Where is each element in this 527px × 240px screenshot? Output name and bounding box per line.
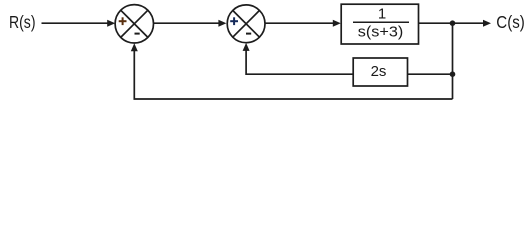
summing junction S1 X cross	[121, 10, 148, 37]
wire G1 output to C(s) with arrowhead	[419, 20, 492, 27]
svg-text:R(s): R(s)	[9, 12, 36, 32]
node junction dot at inner feedback tap	[450, 71, 456, 77]
wire outer feedback bottom line then up into S1 with arrowhead	[131, 43, 453, 99]
svg-text:2s: 2s	[371, 63, 387, 80]
summing junction S2 X cross	[233, 10, 260, 37]
G1 numerator 1	[378, 6, 386, 23]
node R(s) input label	[9, 12, 36, 32]
svg-text:s(s+3): s(s+3)	[358, 24, 404, 41]
svg-text:C(s): C(s)	[496, 12, 525, 32]
wire H1 output left then up into S2 with arrowhead	[243, 43, 354, 74]
G1 denominator s(s+3)	[358, 24, 404, 41]
G1 fraction bar	[353, 21, 409, 23]
summing junction S2 circle	[227, 5, 265, 43]
wire vertical takeoff line down to outer feedback	[452, 23, 454, 99]
wire tap to block H1 input	[408, 73, 453, 75]
wire R(s) to summing junction S1 with arrowhead	[42, 20, 116, 27]
S1 plus sign	[119, 17, 127, 25]
block G1 transfer function 1/s(s+3) box	[341, 4, 418, 44]
S1 minus sign	[135, 33, 140, 35]
wire S2 to block G1 with arrowhead	[265, 20, 341, 27]
H1 label 2s	[371, 63, 387, 80]
S2 plus sign	[230, 17, 238, 25]
svg-text:1: 1	[378, 6, 386, 23]
node takeoff junction dot on output line	[450, 20, 456, 26]
node C(s) output label	[496, 12, 525, 32]
summing junction S1 circle	[115, 5, 153, 43]
S2 minus sign	[246, 33, 251, 35]
wire S1 to summing junction S2 with arrowhead	[154, 20, 227, 27]
block H1 feedback 2s box	[353, 58, 407, 86]
